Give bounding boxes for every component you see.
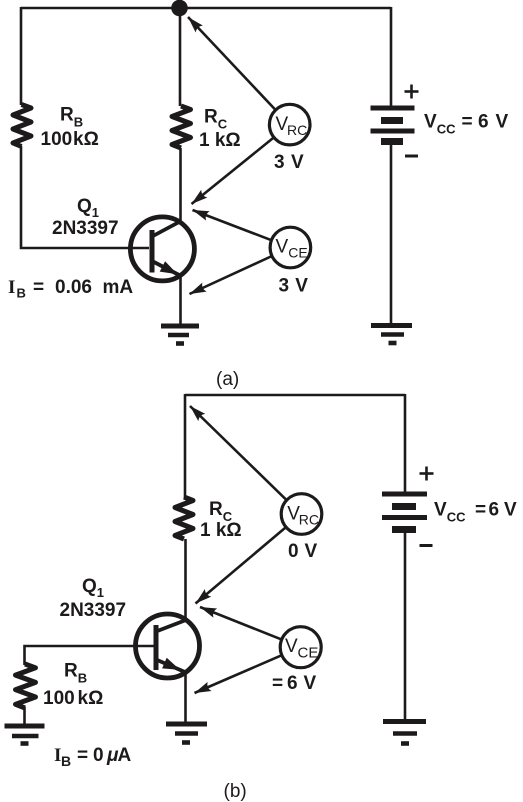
svg-text:RC: RC — [287, 122, 307, 138]
svg-text:100kΩ: 100kΩ — [43, 688, 103, 709]
svg-text:3V: 3V — [274, 152, 304, 173]
svg-text:Q1: Q1 — [82, 576, 104, 600]
wire right rail to battery (a) — [390, 7, 393, 108]
wire emitter to ground (b) — [184, 671, 187, 724]
ground battery (a) — [371, 326, 412, 344]
svg-text:V: V — [276, 237, 289, 258]
probe arrow VRC to top corner (b) — [190, 406, 286, 499]
svg-text:V: V — [285, 636, 298, 657]
svg-text:RC: RC — [204, 107, 228, 132]
svg-text:100kΩ: 100kΩ — [41, 129, 99, 150]
wire RB to ground (b) — [23, 707, 26, 726]
probe arrow VCE to emitter (b) — [195, 655, 283, 693]
svg-text:(a): (a) — [216, 369, 239, 390]
svg-text:RC: RC — [299, 512, 319, 528]
svg-text:RB: RB — [64, 661, 87, 686]
wire battery to ground (b) — [404, 529, 407, 722]
svg-text:0V: 0V — [288, 541, 318, 562]
svg-text:1 kΩ: 1 kΩ — [200, 520, 242, 541]
wire base (a) — [21, 146, 149, 248]
transistor Q1 (b) — [136, 614, 200, 678]
svg-text:VCC=6V: VCC=6V — [434, 500, 517, 525]
ground emitter (b) — [166, 724, 207, 743]
wire left branch upper (a) — [20, 7, 23, 105]
wire right rail to battery (b) — [404, 394, 407, 494]
meter VRC (a) — [269, 104, 310, 145]
meter VRC (b) — [281, 494, 322, 535]
wire collector branch upper (b) — [184, 394, 187, 498]
ground RB (b) — [5, 726, 45, 744]
wire top rail (a) — [21, 7, 391, 10]
svg-text:2N3397: 2N3397 — [52, 218, 119, 239]
probe arrow VCE to collector (b) — [200, 607, 282, 640]
ground battery (b) — [383, 722, 426, 744]
label plus (a) — [405, 85, 419, 99]
resistor RC (a) — [172, 106, 191, 148]
probe arrow VRC to collector (a) — [192, 137, 274, 204]
meter VCE (a) — [270, 227, 311, 268]
transistor Q1 (a) — [130, 217, 194, 281]
svg-text:RB: RB — [60, 105, 83, 130]
svg-text:2N3397: 2N3397 — [60, 600, 127, 621]
resistor RC (b) — [175, 497, 193, 539]
svg-text:(b): (b) — [224, 781, 247, 802]
probe arrow VRC to collector (b) — [196, 527, 287, 603]
wire top rail (b) — [185, 394, 405, 397]
svg-text:CE: CE — [298, 645, 319, 662]
wire collector branch lower (b) — [184, 539, 187, 621]
svg-text:1 kΩ: 1 kΩ — [199, 130, 241, 151]
resistor RB (b) — [16, 664, 36, 708]
ground emitter (a) — [161, 326, 199, 344]
label minus (a) — [405, 155, 418, 158]
wire collector branch lower (a) — [179, 148, 182, 222]
svg-text:IB=0.06mA: IB=0.06mA — [8, 277, 133, 301]
svg-text:Q1: Q1 — [77, 196, 99, 220]
battery VCC (b) — [382, 494, 427, 530]
svg-text:3V: 3V — [279, 276, 309, 297]
wire battery to ground (a) — [390, 141, 393, 326]
node top junction (a) — [171, 0, 188, 16]
battery VCC (a) — [371, 108, 415, 142]
svg-text:CE: CE — [288, 245, 307, 261]
resistor RB (a) — [13, 105, 31, 147]
probe arrow VCE to collector (a) — [193, 210, 272, 240]
wire collector branch upper (a) — [179, 8, 182, 106]
label minus (b) — [420, 544, 433, 547]
label plus (b) — [420, 467, 434, 481]
wire emitter to ground (a) — [179, 275, 182, 326]
svg-text:VCC=6V: VCC=6V — [424, 112, 509, 137]
svg-text:=6V: =6V — [272, 673, 317, 694]
meter VCE (b) — [280, 627, 321, 668]
wire base to RB (b) — [25, 646, 155, 665]
svg-text:IB=0μA: IB=0μA — [54, 745, 132, 769]
probe arrow VCE to emitter (a) — [190, 256, 273, 294]
probe arrow VRC to top node (a) — [188, 17, 276, 110]
